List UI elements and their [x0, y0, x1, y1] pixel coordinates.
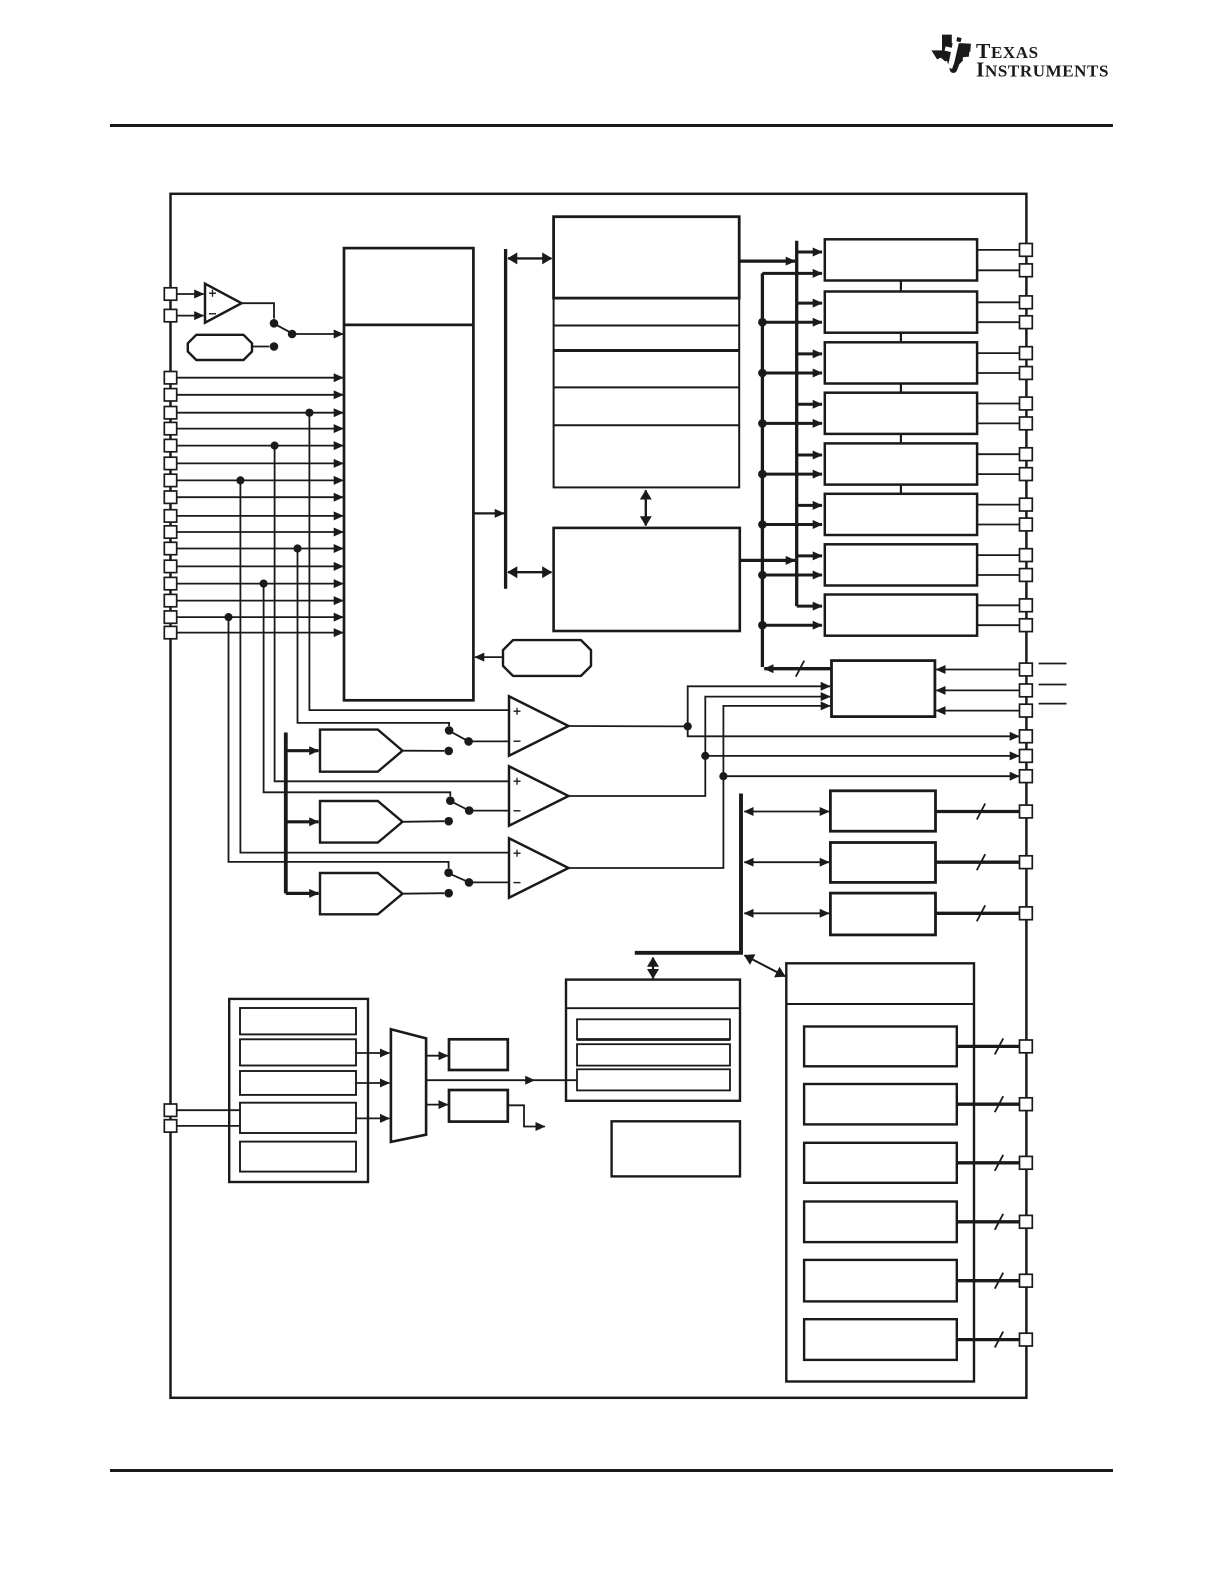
bus-width slash R3 — [995, 1155, 1003, 1171]
pin port input 14 — [164, 594, 176, 606]
wire port input 1 — [177, 377, 343, 379]
divider memory row 3 — [554, 386, 740, 388]
pin right 10 — [1020, 468, 1033, 481]
pin op-amp + — [164, 288, 176, 300]
wire port chain 2-3 — [900, 333, 902, 343]
pin port input 5 — [164, 439, 176, 451]
pin right 21 — [1020, 750, 1033, 763]
wire MDB to port1 low — [762, 272, 822, 275]
pin right 14 — [1020, 569, 1033, 582]
wire port chain 3-4 — [900, 384, 902, 393]
node junction MDB-2 — [758, 318, 767, 327]
node switch contact A — [270, 319, 279, 328]
wire CA2 output — [569, 697, 831, 796]
wire R2 to pins — [957, 1103, 1020, 1106]
wire MCB to port8 high — [797, 605, 822, 608]
block I/O port P8 — [825, 595, 977, 636]
wire Timer3 to pins — [936, 912, 1020, 915]
wire R3 to pins — [957, 1161, 1020, 1164]
wire Timer3 bus (bidirectional) — [744, 912, 829, 914]
block I/O port P4 — [825, 393, 977, 434]
wire MAB to RAM (bidirectional) — [508, 571, 552, 573]
pin right 3 — [1020, 296, 1033, 309]
wire external stub y=663.5 — [1039, 663, 1067, 665]
node contact REF1 — [444, 747, 453, 756]
reference mux REF2 — [320, 801, 403, 843]
wire MDB to port5 low — [762, 473, 822, 476]
block I/O port P1 — [825, 239, 977, 280]
pin right 24 — [1020, 856, 1033, 869]
block port register R6 — [804, 1319, 957, 1360]
wire P7 pin low — [977, 574, 1020, 576]
wire P2 pin high — [977, 301, 1020, 303]
wire port input 3 — [177, 412, 343, 414]
pin right 8 — [1020, 417, 1033, 430]
node junction MDB-6 — [758, 520, 767, 529]
block I/O ports group — [786, 963, 974, 1381]
wire CA1 to USART — [688, 686, 830, 726]
wire port input 14 — [177, 600, 343, 602]
pin right 27 — [1020, 1098, 1033, 1111]
pin right 19 — [1020, 704, 1033, 717]
wire op-amp output — [242, 303, 275, 318]
wire P5 pin high — [977, 453, 1020, 455]
node junction MDB-8 — [758, 621, 767, 630]
pin right 4 — [1020, 316, 1033, 329]
TI logo — [931, 35, 1109, 82]
wire REF2 output — [403, 820, 445, 823]
wire external stub y=684.5 — [1039, 684, 1067, 686]
node junction MDB-5 — [758, 470, 767, 479]
pin port input 13 — [164, 577, 176, 589]
bus-width slash R1 — [995, 1038, 1003, 1054]
pin right 5 — [1020, 347, 1033, 360]
wire bus to port block (diagonal, bidirectional) — [745, 955, 786, 976]
block clock row 3 — [240, 1071, 356, 1095]
wire SMCLK — [508, 1105, 545, 1126]
bus-width slash R4 — [995, 1214, 1003, 1230]
node CA2 pole — [465, 806, 474, 815]
bus timer data vertical — [635, 794, 741, 953]
wire CA3 to pin CAOUT3 — [723, 775, 1019, 777]
wire MDB to port4 low — [762, 422, 822, 425]
wire port input 4 — [177, 428, 343, 430]
wire port input 13 — [177, 583, 343, 585]
wire clock row3 to mux — [356, 1082, 389, 1084]
block Basic Timer — [612, 1121, 740, 1176]
pin right 30 — [1020, 1274, 1033, 1287]
pin XOUT — [164, 1120, 176, 1132]
wire CPU to MAB — [473, 512, 504, 514]
reference mux REF3 — [320, 873, 403, 914]
wire CA1 output — [569, 725, 688, 727]
pin right 23 — [1020, 805, 1033, 818]
switch blade CA3 — [451, 874, 467, 881]
wire P1 pin low — [977, 269, 1020, 271]
block LCD controller — [566, 980, 740, 1101]
block clock system FLL+ — [229, 999, 368, 1182]
bus MAB — [504, 249, 507, 589]
block clock row 4 — [240, 1103, 356, 1133]
wire P4 pin low — [977, 422, 1020, 424]
wire P6 pin high — [977, 504, 1020, 506]
node switch contact B — [270, 342, 279, 351]
op-amp U1 — [205, 284, 242, 323]
wire MDB to port8 low — [762, 624, 822, 627]
wire P8 pin low — [977, 624, 1020, 626]
node junction MDB-4 — [758, 419, 767, 428]
block I/O port P2 — [825, 292, 977, 333]
node contact REF2 — [444, 817, 453, 826]
block memory registers — [554, 298, 740, 487]
wire MDB to port2 low — [762, 321, 822, 324]
divider CPU box — [344, 324, 473, 327]
wire port input 7 — [177, 479, 343, 481]
wire port input 12 — [177, 565, 343, 567]
wire MCB to port1 high — [797, 251, 822, 254]
wire port input 15 — [177, 616, 343, 618]
block USART — [832, 661, 935, 717]
pin right 11 — [1020, 498, 1033, 511]
wire clock row2 to mux — [356, 1052, 389, 1054]
bus-width slash USART — [796, 661, 804, 677]
wire CA3 output — [569, 706, 831, 868]
wire port input 10 — [177, 531, 343, 533]
divider memory row 4 — [554, 424, 740, 426]
block LCD row C — [577, 1069, 730, 1090]
wire R6 to pins — [957, 1338, 1020, 1341]
wire MCLK — [426, 1079, 534, 1081]
pin port input 11 — [164, 542, 176, 554]
block I/O port P7 — [825, 544, 977, 585]
block CPU/MCU core — [344, 248, 473, 700]
switch blade S1 — [276, 325, 290, 333]
pin right 22 — [1020, 770, 1033, 783]
bus MDB right vertical — [761, 273, 764, 667]
block clock divider A — [449, 1039, 508, 1070]
pin right 9 — [1020, 448, 1033, 461]
pin right 20 — [1020, 730, 1033, 743]
wire MCB to port7 high — [797, 554, 822, 557]
pin right 15 — [1020, 599, 1033, 612]
wire port input 2 — [177, 394, 343, 396]
block port register R5 — [804, 1260, 957, 1302]
wire MDB to port6 low — [762, 523, 822, 526]
pin right 26 — [1020, 1040, 1033, 1053]
wire pin to USART at y=710.6 — [936, 710, 1019, 712]
pin port input 16 — [164, 626, 176, 638]
wire MAB bus to Flash (bidirectional) — [508, 257, 552, 259]
switch blade CA1 — [451, 732, 466, 740]
node junction J5, wire to comparator CA2 + — [271, 442, 279, 450]
block port register R1 — [804, 1027, 957, 1067]
pin port input 2 — [164, 389, 176, 401]
wire op-amp -input — [177, 315, 204, 317]
bus-width slash R6 — [995, 1332, 1003, 1348]
wire VREF to REF2 — [286, 820, 319, 823]
wire P2 pin low — [977, 321, 1020, 323]
comparator CA2 — [509, 766, 569, 825]
oscillator OSC — [188, 335, 252, 360]
pin port input 6 — [164, 457, 176, 469]
wire P7 pin high — [977, 554, 1020, 556]
wire RAM MDB output — [740, 559, 795, 562]
wire port input 16 — [177, 632, 343, 634]
wire port input 8 — [177, 496, 343, 498]
divider LCD header — [566, 1007, 740, 1009]
pin port input 1 — [164, 372, 176, 384]
bus-width slash R5 — [995, 1273, 1003, 1289]
block port register R4 — [804, 1202, 957, 1243]
node junction MDB-7 — [758, 571, 767, 580]
pin port input 7 — [164, 474, 176, 486]
wire MCLK continuation to LCD — [535, 1079, 578, 1081]
wire pin XIN — [177, 1109, 240, 1111]
pin right 31 — [1020, 1333, 1033, 1346]
wire clock row4 to mux — [356, 1117, 389, 1119]
wire R5 to pins — [957, 1279, 1020, 1282]
block LCD row A — [577, 1019, 730, 1039]
wire mux to divider A — [426, 1055, 448, 1057]
wire Timer1 to pins — [936, 810, 1020, 813]
wire VREF to REF1 — [286, 749, 319, 752]
node junction J13, wire to CA2 switch — [260, 580, 268, 588]
node junction MDB-3 — [758, 369, 767, 378]
pin right 12 — [1020, 518, 1033, 531]
clock mux (trapezoid) — [391, 1029, 426, 1142]
pin right 17 — [1020, 663, 1033, 676]
bus-width slash Timer3 — [977, 905, 985, 921]
node junction J15, wire to CA3 switch — [224, 613, 232, 621]
pin right 18 — [1020, 684, 1033, 697]
node junction CA2 out — [701, 752, 709, 760]
pin right 28 — [1020, 1156, 1033, 1169]
wire CA1 -input — [469, 740, 509, 742]
wire CA3 -input — [469, 881, 509, 883]
wire MCB to port3 high — [797, 352, 822, 355]
pin right 1 — [1020, 244, 1033, 257]
bus MCB vertical — [795, 241, 798, 606]
pin right 13 — [1020, 549, 1033, 562]
pin right 7 — [1020, 397, 1033, 410]
node junction J7, wire to comparator CA3 + — [236, 476, 244, 484]
wire MCB to port2 high — [797, 302, 822, 305]
wire MCB to port4 high — [797, 403, 822, 406]
block Timer2 — [830, 843, 935, 883]
pin right 16 — [1020, 619, 1033, 632]
header rule — [110, 124, 1113, 127]
wire MDB to port3 low — [762, 372, 822, 375]
wire P1 pin high — [977, 249, 1020, 251]
wire oscillator output — [252, 346, 269, 348]
block Timer1 — [830, 791, 935, 831]
block I/O port P5 — [825, 443, 977, 484]
wire port input 11 — [177, 548, 343, 550]
wire CA1 to pin CAOUT1 — [688, 726, 1019, 736]
block Timer3 — [830, 893, 935, 935]
pin right 29 — [1020, 1215, 1033, 1228]
pin port input 3 — [164, 407, 176, 419]
block LCD row B — [577, 1044, 730, 1065]
wire P5 pin low — [977, 473, 1020, 475]
pin op-amp - — [164, 309, 176, 321]
block clock divider B — [449, 1090, 508, 1122]
footer rule — [110, 1469, 1113, 1472]
wire P8 pin high — [977, 604, 1020, 606]
pin port input 9 — [164, 510, 176, 522]
wire MCB to port5 high — [797, 454, 822, 457]
wire port chain 4-5 — [900, 434, 902, 444]
pin port input 12 — [164, 560, 176, 572]
pin right 2 — [1020, 264, 1033, 277]
wire port chain 5-6 — [900, 485, 902, 494]
node switch contact CA2a — [446, 796, 455, 805]
wire mux to divider B — [426, 1104, 448, 1106]
node switch pole — [288, 330, 297, 339]
wire MCB to port6 high — [797, 504, 822, 507]
block port register R3 — [804, 1143, 957, 1183]
block I/O port P6 — [825, 494, 977, 535]
block Flash/ROM — [554, 217, 740, 298]
wire Timer2 bus (bidirectional) — [744, 861, 829, 863]
wire external stub y=703.6 — [1039, 703, 1067, 705]
svg-text:INSTRUMENTS: INSTRUMENTS — [976, 58, 1109, 82]
block clock row 2 — [240, 1039, 356, 1065]
wire P3 pin high — [977, 352, 1020, 354]
pin right 25 — [1020, 907, 1033, 920]
divider memory row 1 — [554, 325, 740, 327]
node switch contact CA1a — [445, 726, 454, 735]
bus VREF feed — [284, 733, 288, 894]
wire VREF to REF3 — [286, 892, 319, 895]
node junction CA1 out — [684, 722, 692, 730]
pin right 6 — [1020, 367, 1033, 380]
wire Timer2 to pins — [936, 861, 1020, 864]
wire op-amp +input — [177, 293, 204, 295]
divider ports group header — [786, 1003, 974, 1005]
wire P6 pin low — [977, 524, 1020, 526]
pin XIN — [164, 1104, 176, 1116]
wire USART to MDB — [764, 667, 831, 670]
wire P3 pin low — [977, 372, 1020, 374]
wire pin to USART at y=669.5 — [936, 669, 1019, 671]
pin port input 4 — [164, 422, 176, 434]
wire port input 6 — [177, 462, 343, 464]
block clock row 1 — [240, 1008, 356, 1034]
wire bus to LCD (bidirectional) — [652, 958, 654, 979]
wire Flash MDB output — [739, 259, 795, 262]
wire port input 5 — [177, 445, 343, 447]
wire switch to CPU clock input — [292, 333, 343, 335]
svg-text:TEXAS: TEXAS — [976, 39, 1039, 63]
wire MDB to port7 low — [762, 574, 822, 577]
node CA1 pole — [464, 737, 473, 746]
block I/O port P3 — [825, 342, 977, 383]
device outline border — [171, 194, 1027, 1398]
node switch contact CA3a — [444, 868, 453, 877]
wire pin to USART at y=690.4 — [936, 689, 1019, 691]
pin port input 10 — [164, 526, 176, 538]
wire R1 to pins — [957, 1045, 1020, 1048]
wire P4 pin high — [977, 403, 1020, 405]
wire Timer1 bus (bidirectional) — [744, 811, 829, 813]
wire Flash-RAM (bidirectional) — [645, 490, 647, 525]
bus-width slash Timer1 — [977, 804, 985, 820]
block clock row 5 — [240, 1142, 356, 1172]
block flash controller (pill) — [503, 640, 591, 676]
divider memory row 2 — [554, 349, 740, 352]
wire REF1 output — [403, 750, 445, 752]
bus-width slash R2 — [995, 1096, 1003, 1112]
wire REF3 output — [403, 892, 445, 895]
wire R4 to pins — [957, 1220, 1020, 1223]
comparator CA1 — [509, 696, 569, 755]
block port register R2 — [804, 1084, 957, 1124]
node junction J3, wire to comparator CA1 + — [305, 409, 313, 417]
node junction CA3 out — [719, 772, 727, 780]
node contact REF3 — [444, 889, 453, 898]
wire flash controller to CPU — [475, 656, 503, 658]
reference mux REF1 — [320, 730, 403, 772]
wire port input 9 — [177, 515, 343, 517]
switch blade CA2 — [452, 802, 467, 809]
comparator CA3 — [509, 838, 569, 897]
pin port input 8 — [164, 491, 176, 503]
wire CA2 -input — [469, 810, 508, 812]
divider LCD row A bottom — [577, 1038, 730, 1041]
wire pin XOUT — [177, 1125, 240, 1127]
bus-width slash Timer2 — [977, 854, 985, 870]
node CA3 pole — [465, 878, 474, 887]
pin port input 15 — [164, 611, 176, 623]
block RAM — [554, 528, 740, 631]
wire port chain 1-2 — [900, 281, 902, 292]
node junction J11, wire to CA1 switch — [293, 544, 301, 552]
wire CA2 to pin CAOUT2 — [705, 755, 1019, 757]
